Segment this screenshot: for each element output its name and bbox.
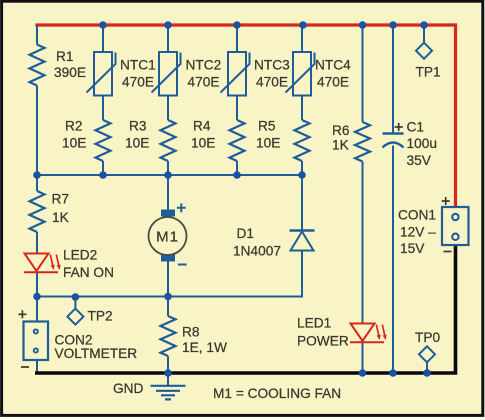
svg-text:NTC3: NTC3	[254, 58, 290, 73]
junction on sense bus x=237	[233, 171, 241, 179]
wire sense bus	[37, 174, 302, 176]
resistor R2	[96, 120, 111, 161]
diode D1 1N4007	[290, 231, 315, 251]
label TP2	[88, 309, 113, 324]
label TP0	[415, 330, 440, 345]
label GND	[113, 381, 144, 396]
svg-text:470E: 470E	[317, 75, 349, 90]
thermistor NTC2	[152, 52, 181, 96]
svg-text:1N4007: 1N4007	[233, 244, 281, 259]
svg-text:NTC4: NTC4	[315, 58, 351, 73]
label CON2 −	[21, 366, 29, 368]
svg-text:TP2: TP2	[88, 309, 113, 324]
wire R7 top	[36, 175, 38, 191]
wire LED2 bottom	[36, 273, 38, 297]
junction on ground bus x=427	[423, 369, 431, 377]
resistor R8	[161, 316, 176, 356]
junction on +12V rail x=362.5	[359, 21, 367, 29]
label R4 10E	[191, 119, 215, 151]
svg-text:R8: R8	[182, 325, 200, 340]
wire R8 top	[167, 297, 169, 317]
junction on ground bus x=362.5	[359, 369, 367, 377]
wire R1 top	[36, 25, 38, 45]
label R2 10E	[62, 119, 86, 151]
wire NTC4 top	[301, 25, 303, 53]
wire fan negative bus	[37, 296, 303, 298]
svg-text:35V: 35V	[407, 153, 432, 168]
label LED2 FAN ON	[63, 248, 114, 281]
wire R6 top	[362, 25, 364, 122]
motor M1 (cooling fan)	[149, 210, 187, 262]
junction on ground bus x=393	[389, 369, 397, 377]
svg-text:R1: R1	[56, 49, 74, 64]
junction on sense bus x=302	[298, 171, 306, 179]
thermistor NTC4	[286, 52, 315, 96]
wire R4 bottom	[236, 161, 238, 175]
label NTC3 470E	[254, 58, 290, 90]
label NTC4 470E	[315, 58, 351, 90]
svg-text:470E: 470E	[188, 75, 220, 90]
svg-text:1K: 1K	[332, 138, 349, 153]
label C1 100u 35V	[407, 120, 437, 169]
svg-text:TP1: TP1	[416, 65, 441, 80]
thermistor NTC1	[87, 52, 116, 96]
svg-text:1E, 1W: 1E, 1W	[182, 340, 227, 355]
wire NTC2 top	[167, 25, 169, 53]
wire D1 bottom	[301, 251, 303, 298]
svg-text:10E: 10E	[256, 136, 280, 151]
resistor R7	[30, 191, 45, 232]
wire C1 bottom	[392, 146, 394, 374]
label R3 10E	[125, 119, 149, 151]
svg-text:R2: R2	[65, 119, 83, 134]
label CON1 −	[444, 251, 452, 253]
junction on +12V rail x=237	[233, 21, 241, 29]
label LED1 POWER	[297, 316, 349, 349]
wire C1 top	[392, 25, 394, 134]
wire +12V rail (red)	[35, 23, 457, 26]
junction on +12V rail x=393	[389, 21, 397, 29]
label R1 390E	[54, 49, 86, 80]
testpoint TP2	[67, 309, 83, 325]
wire R6 to LED1	[362, 162, 364, 324]
wire NTC3 bottom	[236, 96, 238, 121]
wire NTC4 bottom	[301, 96, 303, 121]
testpoint TP1	[416, 43, 432, 59]
label C1 polarity +	[395, 123, 403, 131]
junction on sense bus x=103	[99, 171, 107, 179]
wire CON2 top	[36, 297, 38, 323]
svg-text:GND: GND	[113, 381, 144, 396]
thermistor NTC3	[221, 52, 250, 96]
wire CON2 bottom	[36, 360, 38, 372]
svg-text:12V –: 12V –	[400, 225, 436, 240]
label M1 = COOLING FAN	[213, 386, 341, 401]
label M1 +	[177, 203, 186, 212]
resistor R5	[295, 120, 310, 161]
svg-text:10E: 10E	[191, 136, 215, 151]
wire NTC1 top	[102, 25, 104, 53]
label NTC1 470E	[120, 58, 156, 90]
junction on sense bus x=37	[33, 171, 41, 179]
svg-text:15V: 15V	[400, 241, 425, 256]
wire R5 bottom	[301, 161, 303, 175]
resistor R4	[230, 120, 245, 161]
svg-text:1K: 1K	[52, 210, 69, 225]
svg-text:M1 = COOLING FAN: M1 = COOLING FAN	[213, 386, 341, 401]
wire LED1 bottom	[362, 343, 364, 373]
label NTC2 470E	[186, 58, 222, 90]
wire +12V drop to CON1 (red)	[454, 23, 457, 207]
label R7 1K	[52, 192, 70, 226]
svg-text:NTC1: NTC1	[120, 58, 156, 73]
label D1 1N4007	[233, 226, 281, 259]
svg-text:R7: R7	[52, 192, 70, 207]
svg-text:CON1: CON1	[398, 208, 436, 223]
resistor R3	[161, 120, 176, 161]
svg-text:POWER: POWER	[297, 334, 349, 349]
resistor R1	[30, 45, 45, 86]
wire M1 bottom	[167, 262, 169, 298]
svg-text:470E: 470E	[122, 75, 154, 90]
svg-text:470E: 470E	[256, 75, 288, 90]
connector CON1 (12V-15V input)	[442, 207, 469, 245]
junction TP2	[72, 293, 80, 301]
capacitor C1	[383, 134, 404, 148]
svg-text:VOLTMETER: VOLTMETER	[55, 346, 138, 361]
junction on +12V rail x=424	[420, 21, 428, 29]
svg-text:R3: R3	[129, 119, 147, 134]
wire NTC1 bottom	[102, 96, 104, 121]
wire D1 top	[301, 175, 303, 231]
junction on fan bus x=168	[164, 293, 172, 301]
svg-text:LED1: LED1	[297, 316, 331, 331]
testpoint TP0	[419, 346, 435, 362]
wire NTC2 bottom	[167, 96, 169, 121]
wire R1 bottom	[36, 86, 38, 176]
label CON2 VOLTMETER	[55, 333, 138, 362]
svg-text:100u: 100u	[407, 136, 437, 151]
wire NTC3 top	[236, 25, 238, 53]
svg-text:FAN ON: FAN ON	[63, 265, 114, 280]
svg-text:R6: R6	[332, 123, 350, 138]
wire TP1 stem	[423, 25, 425, 43]
wire TP0 stem	[426, 362, 428, 373]
svg-text:R4: R4	[193, 119, 211, 134]
svg-text:R5: R5	[258, 119, 276, 134]
wire TP2 stem	[74, 297, 76, 309]
junction on sense bus x=168	[164, 171, 172, 179]
wire R7 to LED2	[36, 232, 38, 254]
junction on +12V rail x=168	[164, 21, 172, 29]
svg-text:C1: C1	[407, 120, 425, 135]
label TP1	[416, 65, 441, 80]
label CON1 +	[442, 197, 450, 205]
label CON1 12V-15V	[398, 208, 436, 257]
svg-text:10E: 10E	[125, 136, 149, 151]
wire M1 top	[167, 175, 169, 210]
ground GND	[151, 373, 186, 399]
junction on fan bus x=37	[33, 293, 41, 301]
label R5 10E	[256, 119, 280, 151]
LED LED2 (fan on)	[24, 254, 61, 273]
svg-text:M1: M1	[156, 229, 179, 246]
label CON2 +	[18, 310, 26, 318]
LED LED1 (power)	[350, 324, 387, 343]
wire R3 bottom	[167, 161, 169, 175]
label R6 1K	[332, 123, 350, 153]
junction on +12V rail x=303	[299, 21, 307, 29]
wire ground bus (black)	[35, 245, 457, 375]
svg-text:D1: D1	[237, 226, 255, 241]
wire R2 bottom	[102, 161, 104, 175]
connector CON2 (voltmeter)	[24, 322, 49, 361]
label R8 1E 1W	[182, 325, 227, 356]
junction on ground bus x=168	[164, 369, 172, 377]
svg-text:10E: 10E	[62, 136, 86, 151]
svg-text:TP0: TP0	[415, 330, 440, 345]
junction on +12V rail x=103	[99, 21, 107, 29]
svg-text:390E: 390E	[54, 65, 86, 80]
svg-text:LED2: LED2	[63, 248, 97, 263]
label M1 −	[178, 264, 187, 266]
resistor R6	[355, 122, 370, 162]
wire R8 bottom	[167, 356, 169, 373]
svg-text:NTC2: NTC2	[186, 58, 222, 73]
